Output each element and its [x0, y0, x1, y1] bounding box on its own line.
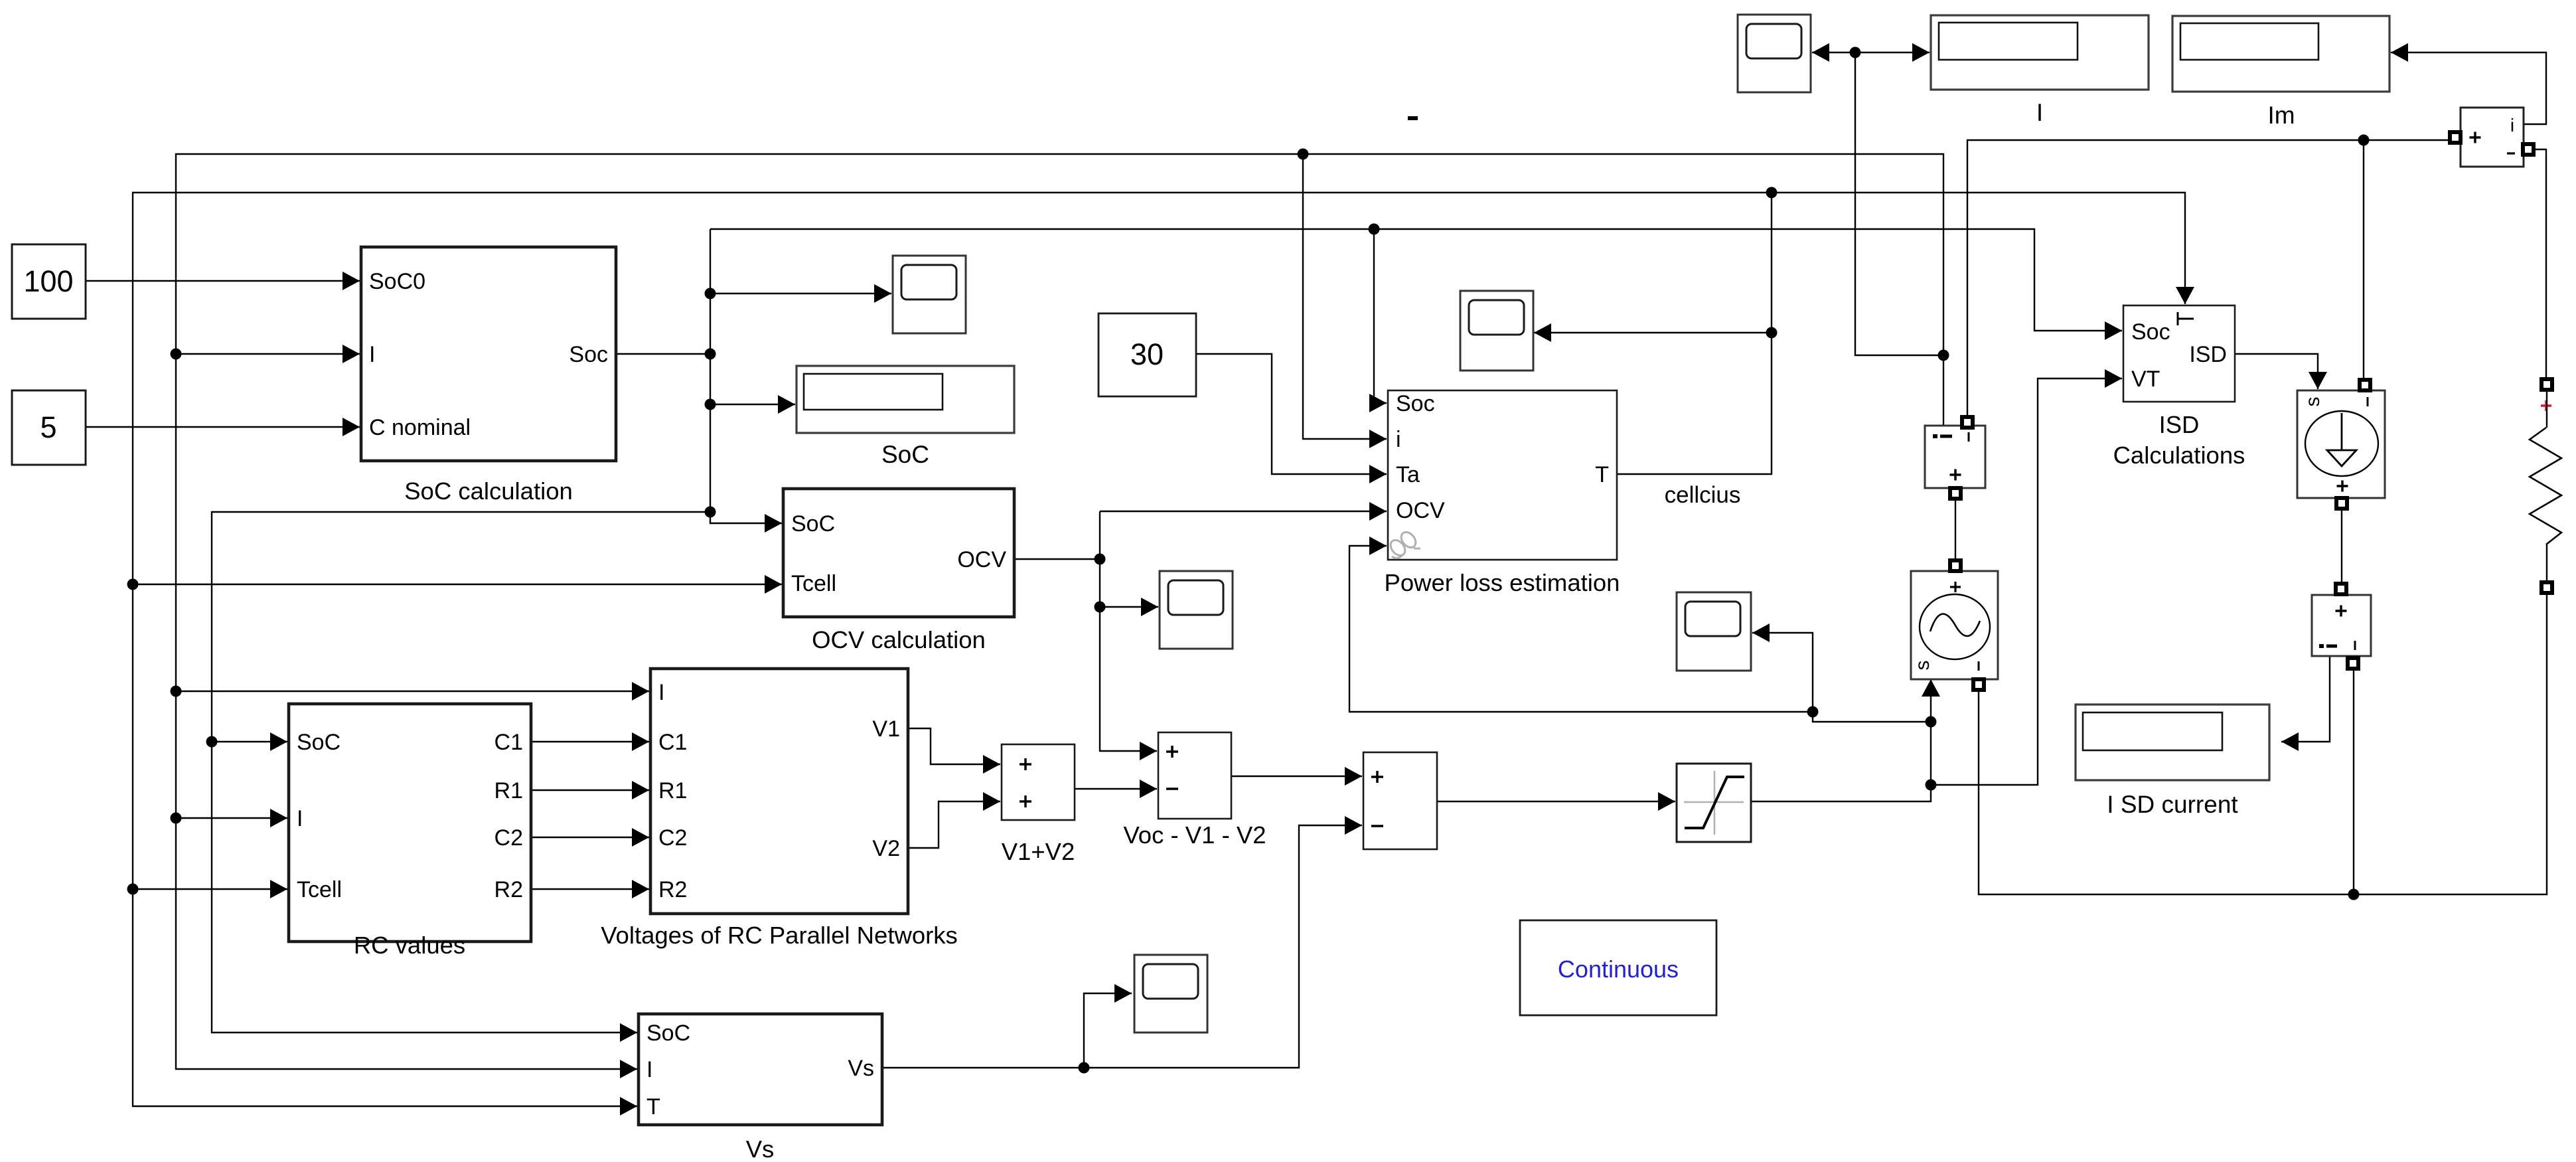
- svg-text:V1+V2: V1+V2: [1002, 838, 1075, 865]
- svg-text:Tcell: Tcell: [297, 877, 342, 902]
- svg-text:Vs: Vs: [746, 1135, 775, 1162]
- svg-text:V2: V2: [872, 836, 900, 861]
- svg-text:100: 100: [23, 264, 73, 298]
- svg-text:5: 5: [40, 410, 56, 444]
- svg-text:T: T: [646, 1094, 660, 1120]
- svg-text:OCV calculation: OCV calculation: [812, 626, 986, 653]
- svg-text:cellcius: cellcius: [1665, 482, 1741, 508]
- svg-text:i: i: [1396, 427, 1401, 452]
- svg-text:Vs: Vs: [848, 1056, 874, 1081]
- svg-text:OCV: OCV: [957, 547, 1006, 572]
- svg-text:Calculations: Calculations: [2113, 442, 2245, 469]
- svg-text:ISD: ISD: [2189, 342, 2227, 367]
- svg-text:30: 30: [1130, 337, 1164, 371]
- svg-text:C nominal: C nominal: [369, 415, 471, 440]
- svg-text:Soc: Soc: [2131, 319, 2170, 345]
- svg-text:R2: R2: [494, 877, 523, 902]
- svg-text:I: I: [646, 1057, 652, 1082]
- svg-text:s: s: [1912, 661, 1933, 671]
- svg-text:I SD current: I SD current: [2107, 791, 2238, 818]
- svg-text:V1: V1: [872, 716, 900, 742]
- svg-text:ISD: ISD: [2159, 411, 2200, 438]
- svg-text:Im: Im: [2267, 102, 2295, 129]
- svg-text:C2: C2: [494, 825, 523, 851]
- svg-text:R2: R2: [658, 877, 687, 902]
- svg-text:R1: R1: [658, 778, 687, 803]
- svg-text:T: T: [1595, 462, 1609, 487]
- svg-text:I: I: [297, 806, 303, 831]
- svg-text:Ta: Ta: [1396, 462, 1420, 487]
- svg-text:C1: C1: [494, 730, 523, 755]
- svg-text:SoC: SoC: [646, 1021, 690, 1046]
- svg-text:SoC: SoC: [297, 730, 341, 755]
- svg-text:Voc - V1 - V2: Voc - V1 - V2: [1123, 821, 1266, 849]
- svg-text:Voltages of RC Parallel Networ: Voltages of RC Parallel Networks: [601, 922, 958, 949]
- svg-text:SoC: SoC: [791, 511, 835, 537]
- svg-text:SoC: SoC: [881, 441, 929, 468]
- svg-text:Continuous: Continuous: [1558, 955, 1679, 983]
- svg-text:i: i: [2510, 115, 2514, 135]
- svg-text:Power loss estimation: Power loss estimation: [1384, 569, 1620, 596]
- svg-text:SoC0: SoC0: [369, 269, 425, 294]
- svg-text:Soc: Soc: [1396, 391, 1435, 416]
- svg-text:I: I: [658, 680, 664, 705]
- svg-text:I: I: [369, 342, 375, 367]
- svg-text:C1: C1: [658, 730, 687, 755]
- svg-text:Tcell: Tcell: [791, 571, 836, 596]
- svg-text:VT: VT: [2131, 367, 2160, 392]
- svg-text:s: s: [2302, 397, 2324, 407]
- svg-text:R1: R1: [494, 778, 523, 803]
- svg-text:Soc: Soc: [569, 342, 608, 367]
- svg-text:SoC calculation: SoC calculation: [404, 477, 573, 505]
- svg-text:RC values: RC values: [354, 932, 465, 959]
- svg-text:I: I: [2036, 99, 2043, 126]
- svg-text:OCV: OCV: [1396, 498, 1445, 523]
- svg-text:C2: C2: [658, 825, 687, 851]
